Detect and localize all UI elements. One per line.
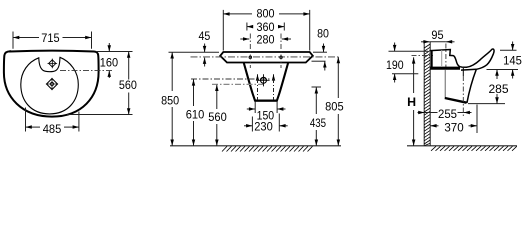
water supply arrows with dash-dot lines	[256, 74, 275, 100]
basin outer outline	[4, 51, 99, 117]
svg-text:610: 610	[186, 107, 205, 121]
siphon level dash-dot (gray)	[212, 83, 263, 85]
wall hatching	[424, 44, 430, 146]
dim 800 extension lines	[223, 10, 309, 51]
deck top extension line (side view left)	[389, 50, 429, 52]
tap hole symbol	[48, 59, 58, 69]
dim 280 arrows (outside pointing in)	[240, 37, 291, 41]
deck bottom extension (right)	[312, 60, 326, 62]
deck fixing holes	[249, 56, 252, 59]
svg-text:190: 190	[386, 58, 404, 72]
svg-text:370: 370	[444, 121, 463, 135]
lower extension line (side view left)	[392, 73, 418, 75]
dim 370 arrows and line	[430, 124, 477, 128]
svg-text:255: 255	[438, 107, 457, 121]
svg-text:485: 485	[43, 122, 62, 136]
dim 435 tick and line	[312, 86, 322, 88]
dim 715 line with arrows	[13, 36, 92, 39]
tap block left edge (side view)	[431, 50, 433, 67]
dim 560 line (left view)	[127, 52, 130, 115]
half-pedestal shroud (side view)	[444, 70, 446, 98]
dim 800 line with arrows	[223, 12, 309, 16]
svg-text:45: 45	[199, 29, 211, 43]
tap hole hidden line (side view)	[441, 50, 443, 66]
svg-text:805: 805	[325, 100, 344, 114]
tap hole centerlines (vertical dash-dot)	[250, 34, 281, 69]
basin inner bowl with tap notch	[21, 57, 79, 114]
dim 805 line	[337, 57, 341, 146]
drain symbol (front view)	[257, 74, 269, 86]
svg-text:160: 160	[100, 56, 118, 70]
dim 160 arrows	[108, 43, 112, 78]
svg-text:560: 560	[208, 110, 227, 124]
dim 150 arrows	[247, 107, 286, 111]
washbasin deck (front view)	[220, 52, 313, 63]
dim H line	[412, 57, 416, 146]
svg-text:95: 95	[431, 28, 443, 42]
dim 80 arrows	[322, 44, 327, 71]
dim 190 arrows	[393, 43, 397, 83]
svg-text:H: H	[407, 95, 416, 109]
basin body and trap (front view)	[244, 63, 288, 101]
floor line (middle view)	[170, 145, 341, 147]
svg-text:715: 715	[41, 31, 59, 45]
basin profile (side view)	[430, 49, 494, 70]
dim 45 arrows	[203, 44, 207, 67]
deck top extension line right	[313, 51, 327, 53]
svg-text:850: 850	[161, 93, 179, 107]
dim 560 line (middle view)	[215, 85, 219, 146]
tap centerline vertical dash-dot (side view)	[445, 44, 447, 68]
dim 255 arrows and line	[418, 111, 472, 114]
dim 850 line	[170, 52, 174, 146]
deck top extension line left	[169, 51, 220, 53]
centerline through tap area	[60, 70, 113, 72]
svg-text:560: 560	[119, 78, 137, 92]
dim 370 extension line	[476, 105, 478, 134]
dim 230 extension lines	[252, 114, 279, 132]
trap bottom edge	[255, 100, 277, 102]
wall lines	[424, 42, 430, 146]
deck hole centerline horizontal dash-dot	[191, 56, 341, 58]
dim 715 extension lines	[13, 32, 92, 49]
svg-text:435: 435	[310, 116, 326, 130]
dim 150 extension lines	[255, 102, 277, 114]
dim 285 line	[495, 70, 499, 104]
floor hatching (right view)	[431, 146, 517, 151]
svg-text:800: 800	[257, 6, 275, 20]
dim 145 arrows	[511, 42, 515, 79]
drain centerline (side view)	[462, 68, 464, 76]
svg-text:145: 145	[503, 54, 522, 68]
dim 360 ticks	[247, 23, 284, 31]
svg-text:285: 285	[488, 82, 508, 96]
bottom extension line	[67, 114, 133, 116]
floor line (right view)	[407, 145, 517, 147]
right extension line (top)	[96, 51, 133, 53]
dim 360 arrows	[247, 25, 284, 29]
dim 230 arrows	[244, 124, 288, 128]
outlet extension line (side view right)	[487, 69, 519, 71]
rim top extension line (side view right)	[500, 49, 517, 51]
shroud bottom extension line	[468, 103, 505, 105]
floor hatching (middle view)	[222, 146, 313, 151]
svg-text:280: 280	[257, 32, 275, 46]
dim 95 line with outside arrows	[421, 40, 455, 44]
svg-text:80: 80	[317, 27, 329, 41]
drain symbol	[46, 78, 58, 90]
dim 610 line	[192, 79, 195, 146]
dim 485 extension lines	[26, 108, 79, 132]
dim 485 line with arrows	[26, 125, 79, 129]
bowl outlet ledge (side view, thick)	[430, 67, 460, 70]
svg-text:230: 230	[254, 120, 273, 134]
drain centerline horizontal dash-dot	[191, 78, 271, 80]
tap height dash-dot horizontal (side view)	[412, 54, 434, 56]
